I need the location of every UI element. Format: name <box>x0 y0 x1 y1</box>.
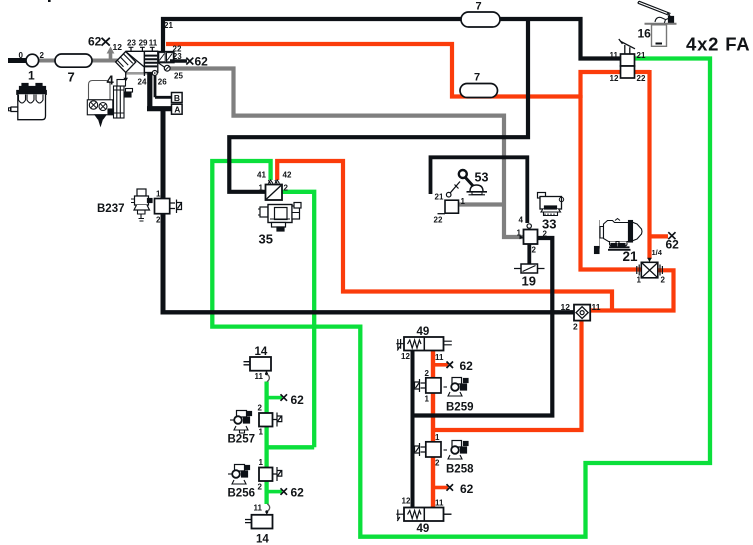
svg-text:2: 2 <box>573 322 578 332</box>
compressor 1 detail drawing <box>9 84 47 120</box>
svg-text:21: 21 <box>164 21 173 30</box>
pressure sensor B257 symbol <box>228 404 282 446</box>
stray glyph fragment at top edge <box>48 0 51 2</box>
wire green: junction to front brake chamber line <box>267 445 315 449</box>
svg-text:0: 0 <box>19 51 24 60</box>
wire orange: foot valve 16 port 22 to line <box>635 70 651 74</box>
wire orange: spring brake chamber 49 line through B259 and B258 <box>431 350 435 508</box>
svg-text:11: 11 <box>149 38 158 47</box>
svg-text:2: 2 <box>40 51 45 60</box>
wire gray: dryer port 25 to hand brake valve 53 and relay valve 33 port 1 <box>170 69 524 238</box>
svg-text:B259: B259 <box>446 402 474 414</box>
svg-text:22: 22 <box>434 216 443 225</box>
svg-text:21: 21 <box>623 249 639 264</box>
wire orange: riser 1 down to overflow valve port 1 <box>581 95 642 270</box>
relay valve 33 symbol <box>517 216 557 255</box>
foot brake valve 16 symbol <box>610 39 646 83</box>
reservoir 7 (middle, circuit 1) <box>460 72 498 98</box>
svg-text:12: 12 <box>113 42 123 52</box>
compressor 1 (circle symbol) <box>19 51 45 83</box>
reservoir 7 (left) <box>55 54 92 85</box>
wire black: chamber 49 port 12 riser <box>411 351 415 509</box>
pressure sensor B257 detail drawing <box>230 411 252 434</box>
svg-text:2: 2 <box>284 184 289 193</box>
svg-text:2: 2 <box>425 369 430 378</box>
wire gray: unloader stub with up arrow near test point 62/12 <box>109 51 113 60</box>
svg-text:1: 1 <box>156 190 161 199</box>
svg-text:2: 2 <box>435 459 440 468</box>
svg-text:1: 1 <box>425 395 430 404</box>
svg-text:11: 11 <box>435 353 444 362</box>
pressure sensor B259 detail drawing <box>444 378 469 397</box>
svg-text:21: 21 <box>435 193 444 202</box>
svg-text:1: 1 <box>259 428 264 437</box>
svg-text:1: 1 <box>259 458 264 467</box>
svg-text:25: 25 <box>174 72 183 81</box>
svg-text:53: 53 <box>475 171 489 185</box>
svg-text:4: 4 <box>107 73 115 88</box>
hand brake valve 53 lever detail drawing <box>459 170 489 195</box>
svg-text:1: 1 <box>637 276 642 285</box>
svg-text:33: 33 <box>542 217 556 232</box>
wire black: supply line to double check valve port 12 <box>161 310 575 314</box>
svg-text:11: 11 <box>254 504 263 513</box>
wire orange: double check valve port 2 down and left to spring brake line <box>433 321 582 431</box>
wire black: dryer port 24 down to terminal A <box>147 73 172 109</box>
svg-text:24: 24 <box>138 78 147 87</box>
svg-text:19: 19 <box>522 274 536 289</box>
pressure sensor B237 detail drawing <box>131 189 152 221</box>
svg-text:23: 23 <box>173 52 182 61</box>
wire green: front chamber 14 line through B257 and B256 <box>264 382 268 505</box>
svg-text:11: 11 <box>435 499 444 508</box>
wire black: dryer port 21 up, top main line to foot valve 16 port 11 <box>163 19 621 59</box>
svg-text:1/4: 1/4 <box>652 248 663 257</box>
wire orange: test point 62 stub lower <box>433 486 448 490</box>
svg-text:7: 7 <box>68 70 75 85</box>
svg-text:2: 2 <box>661 276 666 285</box>
pressure sensor B258 detail drawing <box>444 441 469 460</box>
hand brake valve 53 symbol <box>434 182 466 225</box>
svg-text:42: 42 <box>283 171 292 180</box>
svg-text:11: 11 <box>610 51 619 60</box>
overflow valve (X box) with test point 62 <box>637 232 680 284</box>
test point 62 lower right (B258) <box>447 482 474 496</box>
svg-text:2: 2 <box>532 246 537 255</box>
svg-text:49: 49 <box>417 326 430 338</box>
svg-text:62: 62 <box>88 34 102 48</box>
wire black: relay valve 33 port 2 to spring brake chambers 49 port 12 <box>413 238 553 416</box>
test point 62 at B257 <box>281 393 305 407</box>
wire orange: riser to foot valve 16 port 12 <box>581 72 621 98</box>
wire gray: compressor 1 to reservoir 7 to air dryer 4 inlet <box>37 59 118 63</box>
air dryer 4 symbol <box>107 47 174 82</box>
wire orange: dryer port 22 to reservoir 7 (circuit 1) <box>166 44 580 97</box>
svg-text:B257: B257 <box>228 434 256 446</box>
terminal A <box>172 104 183 114</box>
svg-text:62: 62 <box>195 55 209 69</box>
svg-text:A: A <box>174 105 180 115</box>
pressure sensor B237 symbol <box>97 190 182 225</box>
wire gray: short segment under dryer symbol <box>126 72 148 75</box>
svg-text:35: 35 <box>259 232 273 247</box>
wire black: compressor 1 inlet stub port 0 <box>8 58 27 63</box>
svg-text:1: 1 <box>259 184 264 193</box>
foot brake valve 16 pedal detail drawing <box>638 1 677 46</box>
wire green: test point 62 stub at B257 <box>267 396 282 400</box>
air dryer 4 port labels <box>88 21 183 87</box>
front brake chamber 14 (upper) <box>244 346 272 382</box>
terminal B <box>172 93 183 103</box>
spring brake chamber 49 (lower) <box>396 497 451 536</box>
svg-text:21: 21 <box>637 51 646 60</box>
wire black: relay valve 33 bottom port to drain valve 19 <box>527 244 531 264</box>
reservoir 7 (top, circuit 2) <box>461 1 500 28</box>
svg-text:11: 11 <box>592 302 601 312</box>
svg-text:7: 7 <box>476 1 482 13</box>
wire black: branch from top line down-left to relay valve 35 port 1 <box>229 19 528 192</box>
svg-text:62: 62 <box>666 238 680 252</box>
svg-text:1: 1 <box>435 433 440 442</box>
wire orange: foot valve port 22 down to overflow valve top <box>650 70 669 259</box>
svg-text:12: 12 <box>610 74 619 83</box>
svg-text:12: 12 <box>402 497 411 506</box>
pressure sensor B256 detail drawing <box>228 465 250 485</box>
svg-text:B256: B256 <box>228 488 256 500</box>
svg-text:2: 2 <box>156 216 161 225</box>
drain valve 19 <box>514 264 545 289</box>
svg-text:62: 62 <box>291 486 305 500</box>
svg-text:41: 41 <box>257 171 266 180</box>
test point 62 at dryer port 23 <box>186 55 208 69</box>
wire orange: branch to relay valve 35 port 42 <box>277 161 612 311</box>
svg-text:62: 62 <box>460 482 474 496</box>
pressure sensor B258 symbol <box>415 433 475 476</box>
wire black: main supply line down through B237 <box>161 107 166 199</box>
svg-text:2: 2 <box>258 483 263 492</box>
relay valve 35 symbol <box>257 171 292 247</box>
svg-text:23: 23 <box>127 38 136 47</box>
svg-text:4x2 FA: 4x2 FA <box>686 34 750 55</box>
svg-text:16: 16 <box>638 27 652 41</box>
svg-text:7: 7 <box>474 72 480 84</box>
svg-text:12: 12 <box>561 302 571 312</box>
wire black: dryer port 26 to terminal B <box>155 76 172 97</box>
double check valve (12/11/2) <box>561 302 601 332</box>
svg-text:1: 1 <box>461 197 466 206</box>
svg-text:B: B <box>174 93 180 103</box>
svg-text:11: 11 <box>255 372 264 381</box>
svg-text:29: 29 <box>139 38 148 47</box>
relay valve 33 detail drawing <box>538 193 564 216</box>
svg-text:26: 26 <box>158 78 167 87</box>
svg-text:14: 14 <box>255 346 268 358</box>
svg-text:49: 49 <box>417 523 430 535</box>
wire green: foot valve 16 port 21 main loop to relay valve 35 port 41 <box>212 59 710 537</box>
svg-text:14: 14 <box>256 534 269 545</box>
air horn 21 detail drawing <box>595 219 643 265</box>
front brake chamber 14 (lower) <box>245 504 273 545</box>
relay valve 35 detail drawing <box>258 203 301 232</box>
svg-text:B258: B258 <box>446 464 474 476</box>
svg-text:B237: B237 <box>97 203 125 215</box>
pressure sensor B259 symbol <box>415 369 474 414</box>
svg-text:62: 62 <box>460 359 474 373</box>
pressure sensor B256 symbol <box>228 458 282 500</box>
test point 62 upper right (B259) <box>447 359 474 373</box>
wire black: hand valve 53 port 21 to relay valve 33 port 4 <box>431 157 528 223</box>
wire gray: hand brake valve 53 port 1 to gray riser <box>458 202 506 206</box>
svg-text:62: 62 <box>291 393 305 407</box>
test point 62 at B256 <box>281 486 305 500</box>
wire green: test point 62 stub at B256 <box>267 490 282 494</box>
spring brake chamber 49 (upper) <box>396 326 452 362</box>
wire green: relay valve 35 port 2 to front axle riser <box>282 192 315 447</box>
air dryer 4 detail drawing <box>87 73 132 126</box>
wire black: dryer port 23 stub to test point 62 <box>170 59 187 62</box>
svg-text:22: 22 <box>637 74 646 83</box>
svg-text:4: 4 <box>519 216 524 225</box>
svg-text:2: 2 <box>258 404 263 413</box>
svg-text:12: 12 <box>401 352 410 361</box>
svg-text:1: 1 <box>28 69 35 83</box>
wire orange: test point 62 stub upper <box>433 363 448 367</box>
wire orange: overflow valve port 2 loop to double check valve port 11 <box>590 270 674 310</box>
